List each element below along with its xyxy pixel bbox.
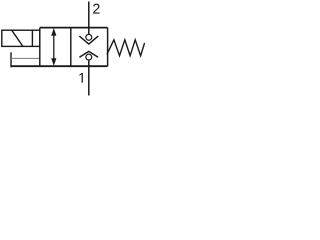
solenoid coil: [2, 30, 40, 46]
position box divider: [70, 28, 72, 67]
port 2 line: [88, 2, 90, 35]
top poppet ball: [86, 34, 92, 40]
manual override stem: [11, 57, 40, 59]
bottom poppet seat: [79, 51, 98, 57]
valve body outline: [11, 28, 108, 67]
port 1 line: [88, 60, 90, 96]
port 1 label: [79, 73, 82, 83]
bottom poppet ball: [86, 54, 92, 60]
return spring: [107, 40, 145, 56]
manual override plunger bar: [10, 52, 12, 67]
flow path double arrow: [52, 29, 56, 65]
background: [0, 0, 145, 97]
port 2 label: [93, 4, 99, 14]
top poppet seat: [79, 36, 98, 44]
